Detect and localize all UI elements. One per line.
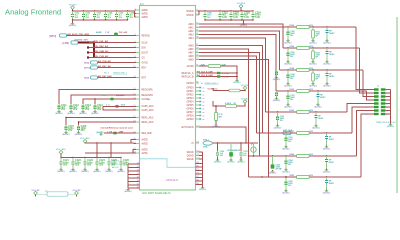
svg-text:(AGND): (AGND) (314, 105, 322, 108)
svg-text:CAP6_ADC: CAP6_ADC (142, 105, 154, 108)
svg-text:RDY: RDY (142, 67, 147, 69)
svg-text:AD7124-8: AD7124-8 (166, 178, 178, 182)
ground AGND under C103c (273, 98, 281, 103)
svg-text:27: 27 (196, 26, 198, 28)
svg-text:143: 143 (196, 142, 199, 144)
wire channel to connector row y=114 (361, 114, 368, 177)
svg-text:25V: 25V (99, 163, 104, 166)
pin ACOM (right) (187, 65, 199, 68)
svg-text:Y?: Y? (251, 143, 255, 146)
svg-text:163: 163 (196, 162, 199, 164)
svg-text:R105: R105 (290, 46, 295, 48)
ground AGND under C126 (117, 169, 125, 174)
pin IOVDD (right) (186, 14, 199, 17)
svg-text:ADC 24BIT SIGMA-DELTA: ADC 24BIT SIGMA-DELTA (142, 192, 171, 195)
svg-text:155: 155 (196, 154, 199, 156)
capacitor C304b shunt NP (325, 155, 335, 168)
svg-text:2K2: 2K2 (309, 46, 312, 48)
wire AVDD net to pins (85, 140, 136, 144)
svg-text:(AGND): (AGND) (97, 131, 104, 134)
svg-text:29: 29 (137, 180, 139, 182)
svg-text:(AGND): (AGND) (214, 161, 222, 164)
svg-text:15: 15 (365, 114, 367, 116)
resistor R101 series (290, 131, 313, 134)
pin AIN9 (right) (188, 58, 199, 61)
wire bus branch VDDL_LWL_AVI (87, 40, 136, 44)
pin RDY (left, pin 10) (133, 66, 146, 69)
pin DGND (right) (187, 151, 200, 154)
ferrite bead FB3 on REF_BUF row (107, 130, 124, 134)
svg-text:nc: nc (203, 105, 205, 107)
pin REGCAPA (left, pin 12) (133, 88, 153, 91)
net flag row AVI_RST_BUS (84, 75, 136, 80)
svg-text:DIN: DIN (142, 47, 146, 49)
capacitor C101b shunt NP (325, 132, 335, 145)
svg-text:RST: RST (142, 77, 147, 79)
pin RST (left, pin 11) (134, 76, 147, 79)
power flag VDCBLK (241, 98, 250, 103)
svg-text:R101: R101 (290, 131, 295, 133)
wire analog channel row y=70 (280, 69, 364, 71)
svg-text:2K2: 2K2 (309, 89, 312, 91)
capacitor C111 regulator cap (58, 104, 68, 111)
connector J1 DIMM header (365, 86, 396, 125)
ground AGND under bank 1 (72, 20, 74, 23)
net flag AIN5 on row 133 (283, 129, 293, 134)
wire AIN nest from pin y=24 (199, 24, 283, 48)
wire channel to connector row y=89.5 (356, 27, 368, 90)
svg-text:(AGND): (AGND) (309, 84, 317, 87)
svg-text:(AGND): (AGND) (323, 41, 331, 44)
ground AGND under bank 2 (243, 20, 245, 23)
inductor L1 between CAP6 and CAP5 (106, 105, 126, 108)
capacitor C302b shunt NP (325, 176, 335, 189)
capacitor C102 decoupling bank 1 (82, 10, 90, 20)
svg-text:25V: 25V (81, 129, 86, 132)
capacitor C104c corner cap (275, 70, 278, 77)
svg-text:45: 45 (196, 44, 198, 46)
pin DGND (right) (187, 158, 200, 161)
ground AGND under C103b (314, 104, 322, 109)
svg-text:181: 181 (196, 180, 199, 182)
svg-text:nc: nc (203, 115, 205, 117)
svg-text:25V: 25V (75, 163, 80, 166)
svg-text:AIN1: AIN1 (188, 26, 194, 29)
svg-text:(AGND): (AGND) (62, 133, 70, 136)
svg-text:AVDD: AVDD (142, 9, 149, 12)
ground AGND under C102a (274, 125, 282, 130)
crystal Y1 (251, 143, 256, 157)
capacitor C302a shunt (285, 176, 294, 189)
svg-text:internal Reference must be use: internal Reference must be used (101, 126, 134, 129)
pin EXTCLK/IN (right) (182, 126, 200, 129)
svg-text:GPIO3: GPIO3 (186, 98, 194, 100)
svg-text:DNI&DLGND..T: DNI&DLGND..T (205, 83, 220, 85)
svg-text:(AGND): (AGND) (323, 170, 331, 173)
wire IOVDD pin to bank 2 bus (198, 11, 200, 15)
capacitor C113 regulator cap (82, 104, 92, 111)
ground AGND under C105a (284, 61, 292, 66)
svg-text:2: 2 (386, 89, 387, 91)
svg-text:6.3V: 6.3V (244, 16, 249, 19)
svg-text:AIN0: AIN0 (188, 23, 194, 26)
resistor R106 series (290, 25, 313, 28)
pin GPIO8 DNI annotation (201, 82, 219, 85)
svg-text:GPIO9: GPIO9 (186, 119, 194, 121)
svg-text:14: 14 (386, 110, 388, 112)
wire REGCAPD net (71, 95, 136, 104)
ground AGND under D1 (227, 159, 235, 164)
svg-text:nc: nc (203, 91, 205, 93)
node labels beside ladder (112, 161, 120, 170)
net flag XTAL1 oval (203, 138, 212, 148)
pin GPIO1 marked NC (186, 90, 204, 93)
wire AIN nest from pin y=38 (199, 38, 266, 112)
pin DOUT (left, pin 7) (134, 51, 148, 54)
svg-text:VDDL_LWB_AVI: VDDL_LWB_AVI (93, 50, 109, 53)
capacitor C305 on row 156 (271, 155, 283, 170)
svg-text:(AGND): (AGND) (323, 62, 331, 65)
svg-text:AVDD: AVDD (142, 16, 149, 19)
wire AVDD top bus (73, 10, 135, 12)
svg-text:174: 174 (196, 173, 199, 175)
svg-text:VDDL_LWL_AVI: VDDL_LWL_AVI (93, 40, 109, 43)
capacitor C102b shunt NP (315, 111, 325, 124)
capacitor C201 decoupling bank 2 (219, 10, 229, 20)
svg-text:AIN5: AIN5 (188, 44, 194, 47)
capacitor C205 at U1 IOVDD (204, 10, 213, 20)
capacitor C203 decoupling bank 2 (241, 10, 251, 20)
svg-text:GPIO4: GPIO4 (186, 101, 194, 103)
pin GPIO4 marked NC (186, 101, 204, 104)
ground AGND below U1 right ladder (199, 187, 207, 192)
pin SYNC (left, pin 9) (134, 61, 148, 64)
svg-text:(AGND): (AGND) (323, 84, 331, 87)
ground AGND under C104b (323, 83, 331, 88)
wire CLKSEL net (83, 99, 136, 104)
svg-text:2K2: 2K2 (309, 131, 312, 133)
pin AIN7 (right) (188, 51, 199, 54)
svg-text:AVSS: AVSS (142, 152, 148, 155)
svg-text:Analog Frontend: Analog Frontend (5, 8, 61, 17)
wire channel to connector row y=103.5 (347, 104, 368, 113)
wire analog channel row y=133 (257, 132, 353, 134)
svg-text:8: 8 (386, 100, 387, 102)
svg-text:[MTU]: [MTU] (84, 68, 90, 70)
resistor R103 series (290, 89, 313, 92)
wire REF1 net (66, 118, 136, 126)
svg-text:NODC: NODC (329, 139, 335, 141)
svg-text:R103: R103 (290, 89, 295, 91)
svg-text:NODC: NODC (329, 162, 335, 164)
resistor R203 to VDCBLK (213, 101, 245, 107)
svg-text:R302: R302 (290, 175, 295, 177)
capacitor C202 decoupling bank 2 (230, 10, 240, 20)
svg-text:10: 10 (386, 103, 388, 105)
pin AIN8 (right) (188, 55, 199, 58)
resistor R102 series (290, 110, 313, 113)
ground AGND under C101a (282, 146, 290, 151)
svg-text:REFIN2: REFIN2 (142, 35, 151, 37)
svg-text:27: 27 (137, 173, 139, 175)
svg-text:4K6: 4K6 (219, 115, 222, 118)
svg-text:C_W: C_W (105, 32, 109, 34)
svg-text:7: 7 (366, 100, 367, 102)
wire VDCAVI to bus (72, 9, 74, 11)
note DNI annotation (104, 72, 128, 75)
pin AIN5 (right) (188, 44, 199, 47)
wire analog channel row y=112 (266, 111, 348, 113)
svg-text:(AGND): (AGND) (269, 172, 277, 175)
pin XI (right) (191, 142, 199, 145)
svg-text:(AGND): (AGND) (282, 147, 290, 150)
svg-text:CS: CS (142, 57, 146, 59)
svg-text:(AGND): (AGND) (284, 62, 292, 65)
svg-text:(AGND): (AGND) (387, 125, 395, 128)
svg-text:2K2: 2K2 (309, 175, 312, 177)
capacitor C106 decoupling bank 1 (126, 10, 134, 20)
ground AGND under C302b (323, 190, 331, 195)
capacitor C103c corner cap (275, 91, 278, 98)
pin AVDD (left, pin 3) (134, 16, 148, 19)
capacitor C104 decoupling bank 1 (104, 10, 113, 20)
ground AGND under R204 (212, 124, 220, 129)
svg-text:GPIO8: GPIO8 (186, 83, 194, 85)
ground AGND under R105b (309, 61, 317, 66)
resistor R201 clock termination (199, 63, 237, 79)
wire J1 return side to ground (390, 90, 392, 124)
svg-text:REFCLK_A: REFCLK_A (182, 72, 194, 75)
svg-text:4: 4 (386, 93, 387, 95)
svg-text:SCLK: SCLK (142, 42, 148, 44)
svg-text:VDDL_PLW_AVI: VDDL_PLW_AVI (93, 55, 109, 58)
svg-text:6.3V: 6.3V (233, 16, 238, 19)
pin AIN0 (right) (188, 23, 199, 26)
capacitor C104a shunt (287, 69, 296, 82)
svg-text:AVDD: AVDD (142, 138, 149, 141)
svg-text:(AGND): (AGND) (79, 112, 87, 115)
svg-text:31: 31 (196, 30, 198, 32)
ground AGND under C111 (55, 111, 63, 116)
diode D1 NP (227, 143, 241, 159)
wire analog channel row y=48 (283, 47, 360, 49)
svg-text:170: 170 (196, 169, 199, 171)
svg-text:XI: XI (191, 143, 194, 145)
svg-text:DGND: DGND (187, 152, 194, 154)
svg-text:25V: 25V (73, 108, 78, 111)
svg-text:(AGND): (AGND) (233, 81, 241, 84)
capacitor C106b shunt NP (326, 26, 336, 39)
pin GPIO0 marked NC (186, 87, 204, 90)
svg-text:25V: 25V (87, 163, 92, 166)
svg-text:AIN8: AIN8 (188, 55, 194, 58)
svg-text:3: 3 (366, 93, 367, 95)
svg-text:59: 59 (196, 58, 198, 60)
pin REF1_ADC (left, pin 17) (133, 116, 153, 119)
pin AVDD (left, pin 2) (134, 12, 148, 15)
svg-text:DGND: DGND (187, 159, 194, 161)
wire AIN nest from pin y=56 (199, 56, 257, 133)
capacitor C102a shunt (276, 111, 285, 124)
power flag VDCBUS (237, 3, 246, 8)
ground AGND under R106b (309, 40, 317, 45)
svg-text:NODC: NODC (329, 54, 335, 56)
svg-text:(AGND): (AGND) (93, 170, 101, 173)
pin GPIO9 marked NC (186, 118, 204, 121)
wire bottom cap bus (61, 157, 121, 159)
svg-text:R102: R102 (290, 110, 295, 112)
ferrite bead FB1 on REFIN row (96, 31, 127, 35)
power flag VDCLVR (241, 85, 250, 90)
pin GPIO5 marked NC (186, 104, 204, 107)
resistor R304 series (290, 153, 313, 157)
svg-text:AIN6: AIN6 (188, 48, 194, 51)
svg-text:12: 12 (386, 107, 388, 109)
svg-text:127: 127 (196, 126, 199, 128)
capacitor C125 supply cap (108, 157, 118, 169)
svg-text:(AGND): (AGND) (323, 147, 331, 150)
svg-text:nc: nc (203, 112, 205, 114)
ground AGND under C220 (214, 159, 222, 164)
svg-text:NODC: NODC (329, 183, 335, 185)
ground AGND under C104a (284, 83, 292, 88)
ground AGND under C121 (57, 169, 65, 174)
ground AGND under C304b (323, 169, 331, 174)
ground AGND under C107 (62, 132, 70, 137)
ground AGND under C304a (282, 169, 290, 174)
svg-text:25V: 25V (123, 163, 128, 166)
wire analog channel row y=156 (249, 155, 357, 157)
svg-text:24: 24 (196, 23, 198, 25)
svg-text:(AGND): (AGND) (105, 170, 113, 173)
svg-text:(AGND): (AGND) (284, 84, 292, 87)
svg-text:(AGND): (AGND) (57, 170, 65, 173)
svg-text:DNI&DLGND..T: DNI&DLGND..T (113, 73, 128, 75)
wire CAP6 loop (103, 106, 136, 110)
wire XI net (212, 142, 258, 144)
svg-text:IOVDD: IOVDD (186, 15, 194, 17)
power flag VDLCAP right (72, 189, 81, 195)
svg-text:177: 177 (196, 176, 199, 178)
svg-text:(AGND): (AGND) (284, 105, 292, 108)
svg-text:(AGND): (AGND) (212, 126, 220, 129)
svg-text:GPIO0: GPIO0 (186, 87, 194, 89)
capacitor C101a shunt (285, 132, 294, 145)
pin REFCLK_B (right) (182, 75, 199, 78)
svg-text:GPIO8: GPIO8 (186, 115, 194, 117)
svg-text:REF1_ADC: REF1_ADC (142, 116, 154, 119)
svg-text:(AGND): (AGND) (117, 170, 125, 173)
svg-text:NC st: NC st (104, 72, 109, 75)
svg-text:GPIO2: GPIO2 (186, 94, 194, 96)
svg-text:25: 25 (137, 166, 139, 168)
wire analog channel row y=177 (249, 176, 362, 178)
wire analog channel row y=27 (199, 26, 356, 28)
pin CAP5_ADC (left, pin 16) (133, 109, 154, 112)
svg-text:34: 34 (196, 33, 198, 35)
ground AGND under C114 (91, 111, 99, 116)
capacitor C210 termination pair (217, 72, 238, 79)
pin DGND (right) (187, 154, 200, 157)
svg-text:nc: nc (203, 87, 205, 89)
pin AIN6 (right) (188, 48, 199, 51)
svg-text:(AGND): (AGND) (91, 112, 99, 115)
svg-text:nc: nc (203, 101, 205, 103)
svg-text:REF2_ADC: REF2_ADC (142, 121, 154, 124)
svg-text:AVDD: AVDD (142, 142, 149, 145)
svg-text:[LSM]: [LSM] (63, 43, 70, 45)
ground AGND under C125 (105, 169, 113, 174)
pin GPIO7 marked NC (186, 111, 204, 114)
svg-text:16: 16 (386, 114, 388, 116)
svg-text:PLF +LW: PLF +LW (119, 32, 127, 34)
svg-text:LEGEND_SER: LEGEND_SER (74, 40, 88, 42)
svg-text:(AGND): (AGND) (309, 41, 317, 44)
svg-text:5: 5 (366, 96, 367, 98)
svg-text:AIN3: AIN3 (188, 33, 194, 36)
wire AIN nest from pin y=31 (199, 31, 280, 70)
svg-text:(AGND): (AGND) (81, 170, 89, 173)
capacitor C105b shunt NP (326, 47, 336, 60)
svg-text:[SAI]: [SAI] (84, 62, 89, 65)
ground AGND under C305 (269, 170, 277, 175)
ground AGND under J1 (387, 124, 395, 129)
capacitor C106 reference cap (77, 125, 87, 132)
svg-text:56: 56 (196, 55, 198, 57)
pin AVDD (left, pin 1) (134, 9, 148, 12)
sheet bus bar right edge (396, 17, 398, 193)
svg-text:(AGND): (AGND) (69, 24, 77, 27)
svg-text:52: 52 (196, 51, 198, 53)
ground AGND under C124 (93, 169, 101, 174)
svg-text:167: 167 (196, 166, 199, 168)
ground AGND under C101b (323, 146, 331, 151)
pin GPIO6 marked NC (186, 108, 204, 111)
svg-text:(AGND): (AGND) (312, 126, 320, 129)
ground AGND under C113 (79, 111, 87, 116)
pin IOVDD (right) (186, 10, 199, 13)
capacitor C304a shunt (285, 155, 294, 168)
svg-text:11: 11 (196, 10, 198, 12)
svg-text:25V: 25V (63, 163, 68, 166)
junction on row 177 (261, 176, 262, 177)
wire channel to connector row y=96.5 (363, 70, 368, 97)
capacitor C114 regulator cap (94, 99, 104, 111)
resistor R105 series (290, 46, 313, 49)
wire bus branch VDDL_PLW_AVI (87, 55, 136, 59)
ground AGND under C102b (312, 125, 320, 130)
svg-text:(AGND): (AGND) (274, 126, 282, 129)
svg-text:(AGND): (AGND) (69, 170, 77, 173)
ground AGND under C106b (323, 40, 331, 45)
svg-text:184: 184 (196, 183, 199, 185)
capacitor C122 supply cap (72, 157, 82, 169)
svg-text:(AGND): (AGND) (309, 62, 317, 65)
ground AGND under C302a (282, 190, 290, 195)
svg-text:AIN4: AIN4 (188, 37, 194, 40)
ground AGND under R104b (309, 83, 317, 88)
pin GPIO8 marked NC (186, 115, 204, 118)
capacitor C103 decoupling bank 1 (93, 10, 101, 20)
svg-text:2K2: 2K2 (309, 68, 312, 70)
capacitor C126 supply cap (120, 157, 130, 169)
svg-text:15: 15 (196, 14, 198, 16)
node teal highlight line inside U1 (140, 159, 196, 168)
svg-text:(AGND): (AGND) (237, 161, 245, 164)
capacitor C103a shunt (287, 90, 296, 103)
pin AVDD (left, pin 21) (133, 142, 148, 145)
resistor R106b shunt (312, 26, 321, 39)
